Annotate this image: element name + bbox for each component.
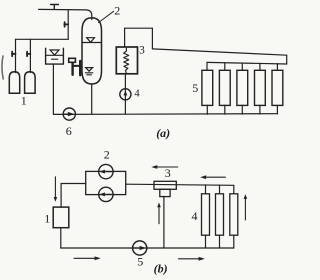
pump 6 [63,108,75,120]
wire downpipe through flowmeter 4 [124,74,126,114]
svg-text:(b): (b) [154,262,168,276]
valve on riser [64,22,68,27]
pump 5 (b) [133,241,147,255]
vessel 2 saturator [82,18,102,84]
svg-text:2: 2 [114,3,120,17]
drain tube on vessel left [79,61,81,75]
tube drop t1 [206,105,208,114]
sample line below 3 [163,196,165,248]
valve on cylinder 1a line [12,52,16,57]
svg-text:1: 1 [21,94,27,108]
vessel downpipe [91,84,93,114]
tube drop t5 [276,105,278,113]
tank level mark [47,50,63,59]
flow arrow down [54,177,56,198]
wire drop to cylinder 1b [29,39,31,72]
svg-text:3: 3 [139,45,145,57]
tube drop t4 [259,105,261,114]
bank riser 4a [205,185,207,194]
bank riser t4 [259,63,261,70]
absorption tube 5b [219,70,230,105]
tube drop 4c [233,235,235,248]
absorption tube 5e [272,70,283,105]
bank right edge [286,55,288,64]
tube 4a [202,194,210,235]
svg-text:3: 3 [165,166,171,180]
tube drop t2 [224,105,226,114]
svg-text:6: 6 [66,124,72,138]
flow arrow right on bottom line [74,257,95,259]
absorption tube 5a [202,70,213,105]
wire drop to cylinder 1a [15,39,17,72]
svg-text:5: 5 [137,255,143,269]
absorption tube 5c [237,70,248,105]
stopcock cap [69,58,76,62]
inlet wire into column [61,184,86,208]
tube 4c [230,194,238,235]
leader line label 2 [99,11,114,22]
flow arrow up right of bank [244,199,246,220]
scan artifact left edge [2,56,3,79]
stopcock stem [71,62,73,75]
stopcock connector [74,65,80,67]
column 1 [53,207,69,228]
meter circle top [99,164,113,178]
long top line to tube bank [152,49,286,55]
absorption tube 5d [255,70,266,105]
bank riser t3 [241,63,243,70]
meter circle bottom [99,187,113,201]
svg-text:2: 2 [104,147,110,161]
bank top header [207,62,287,64]
tube drop 4b [219,235,221,248]
riser U from meter 3 [125,28,153,49]
bank riser t2 [224,63,226,71]
flow arrow up beside sample line [158,207,160,224]
head tank [46,48,64,64]
orifice 3 [154,181,176,189]
vessel upper level line [82,42,101,44]
pot below orifice [160,189,170,196]
coil inside meter 3 [124,49,129,74]
tank downpipe [52,64,54,114]
bank riser 4b [219,185,221,194]
svg-text:1: 1 [44,212,50,226]
manifold wire [16,38,69,40]
bank riser t1 [206,62,208,70]
svg-text:(a): (a) [156,126,170,140]
vessel upper level triangle [87,38,95,43]
svg-text:4: 4 [134,89,140,100]
main top line (b) [126,184,234,194]
meter box 2 [86,171,126,194]
vessel lower level mark [85,68,92,75]
gas cylinder 1a [9,72,19,94]
column drop (b) [60,228,62,248]
flowmeter 4 [120,89,131,100]
svg-text:5: 5 [192,81,198,95]
wire top vent line [39,9,92,19]
wet gas meter 3 [116,47,137,74]
valve on cylinder 1b line [27,52,31,57]
tube drop 4a [205,235,207,248]
bottom line (b) [61,247,234,249]
vent to atmosphere [51,5,59,10]
flowmeter 4 float [124,91,128,96]
gas cylinder 1b [25,72,35,94]
tube 4b [216,194,224,235]
flow arrow right on bottom line (east) [179,258,199,260]
bank riser t5 [276,64,278,71]
wire riser to manifold [67,10,69,40]
svg-text:4: 4 [192,209,198,223]
flow arrow left above bank [206,176,226,178]
tube drop t3 [241,105,243,114]
flow arrow left above 3 [157,166,178,168]
bottom line (a) [53,113,277,116]
